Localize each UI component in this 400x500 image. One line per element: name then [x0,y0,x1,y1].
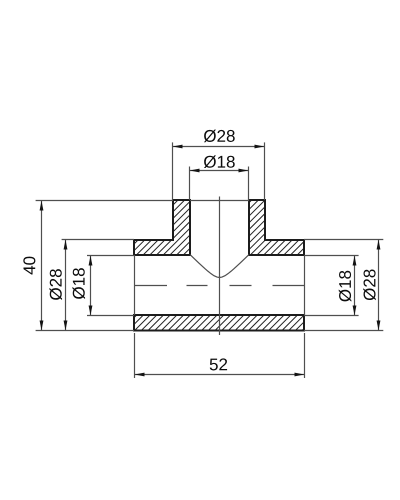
dimension D18 left (body bore) [72,256,134,316]
left wall section hatching [82,199,246,256]
right end-face bore edge [304,255,306,315]
bore intersection curve [190,255,249,278]
dimension 52 bottom (body length) [135,333,305,378]
dimension D18 right (body bore) [304,256,359,316]
right wall section hatching [196,199,360,256]
branch end-face bore edge [190,200,249,202]
dimension D28 right (body outer) [304,240,383,331]
vertical centerline [219,197,221,336]
dimension D28 top (branch outer) [173,130,265,200]
bottom wall thick outline [134,315,304,331]
right wall thick outline [249,200,304,255]
dimension D18 top (branch bore) [190,155,249,200]
left end-face bore edge [134,255,136,315]
bottom wall section hatching [121,314,319,331]
left wall thick outline [134,200,190,255]
dimension 40 left (overall height) [23,201,173,331]
horizontal centerline [135,285,305,287]
dimension D28 left (body outer) [49,240,134,331]
